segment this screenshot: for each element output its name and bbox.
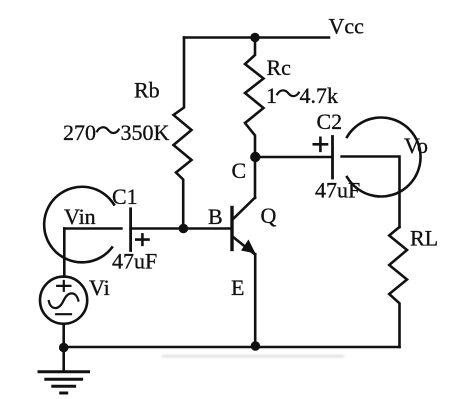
scan smudge artifact	[162, 355, 344, 358]
resistor Rc	[245, 38, 264, 158]
source Vi circle	[40, 277, 87, 324]
svg-text:B: B	[208, 204, 223, 229]
svg-text:Vin: Vin	[64, 204, 96, 229]
svg-text:C: C	[232, 158, 247, 183]
wire top rail Vcc	[184, 36, 329, 39]
svg-text:Rc: Rc	[267, 55, 292, 80]
wire Vin corner down to source	[63, 229, 66, 277]
probe loop Vin	[44, 187, 114, 263]
source Vi sine	[49, 293, 79, 308]
capacitor C2 plate	[331, 137, 334, 179]
resistor Rb	[174, 38, 192, 230]
wire bottom rail	[64, 346, 400, 349]
ground stem	[62, 347, 65, 372]
svg-text:Vcc: Vcc	[329, 14, 365, 39]
junction node emitter bottom	[251, 341, 261, 351]
wire C node to C2	[255, 156, 333, 159]
junction node B rail	[179, 224, 189, 234]
svg-text:Q: Q	[261, 203, 277, 228]
capacitor C1 plate	[129, 209, 132, 251]
junction node ground	[59, 343, 69, 353]
svg-text:350K: 350K	[121, 120, 170, 145]
svg-text:C2: C2	[317, 109, 343, 134]
svg-text:47uF: 47uF	[315, 178, 360, 203]
transistor Q collector stroke	[233, 157, 256, 220]
junction node top rail	[250, 33, 259, 42]
wire C1 to base	[131, 227, 231, 230]
resistor RL	[389, 227, 407, 347]
ground bar 1	[39, 370, 89, 373]
svg-text:Rb: Rb	[134, 78, 160, 103]
ground bar 2	[46, 378, 82, 381]
ground bar 4	[61, 392, 67, 395]
svg-text:E: E	[231, 275, 244, 300]
svg-text:C1: C1	[112, 184, 138, 209]
source Vi minus	[56, 313, 71, 315]
capacitor C2 plus sign	[314, 138, 327, 151]
transistor Q emitter stroke	[233, 237, 256, 348]
junction node C	[250, 152, 260, 162]
transistor Q base bar	[230, 208, 233, 250]
svg-text:270: 270	[63, 120, 96, 145]
svg-text:Vi: Vi	[89, 275, 110, 300]
svg-text:RL: RL	[410, 226, 438, 251]
svg-text:Vo: Vo	[404, 133, 428, 158]
source Vi plus	[57, 281, 70, 291]
wire base from Vin corner	[64, 227, 121, 230]
svg-text:4.7k: 4.7k	[300, 83, 339, 108]
probe loop Vo	[347, 118, 421, 197]
svg-text:1: 1	[266, 83, 277, 108]
svg-text:47uF: 47uF	[112, 249, 157, 274]
ground bar 3	[53, 385, 75, 388]
wire source to ground node	[62, 324, 65, 347]
transistor Q emitter arrowhead	[241, 240, 256, 254]
capacitor C1 plus sign	[136, 234, 148, 244]
wire C2 to output corner	[342, 157, 400, 228]
